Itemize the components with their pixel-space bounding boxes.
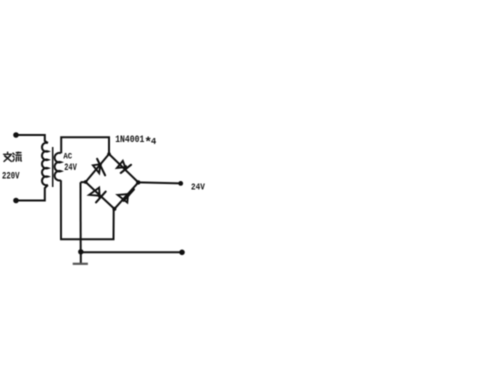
svg-text:1N4001: 1N4001: [115, 134, 144, 145]
svg-text:AC: AC: [63, 152, 72, 161]
svg-text:4: 4: [151, 137, 157, 147]
svg-text:24V: 24V: [191, 182, 205, 193]
svg-text:24V: 24V: [64, 162, 77, 173]
svg-text:220V: 220V: [2, 172, 20, 183]
